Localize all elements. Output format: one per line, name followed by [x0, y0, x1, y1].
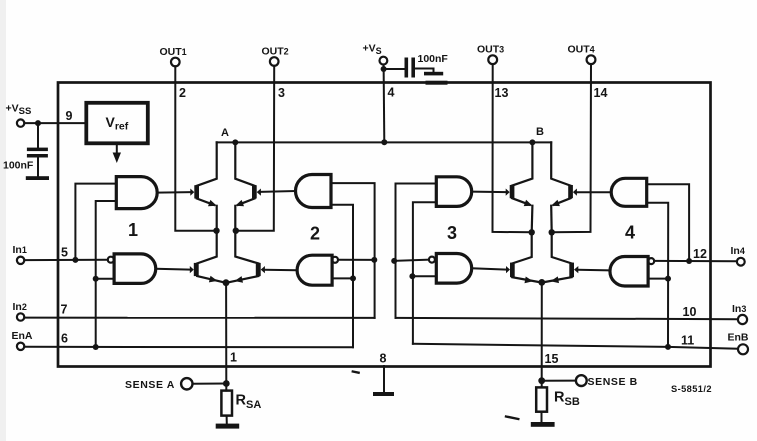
svg-text:EnB: EnB: [728, 332, 749, 344]
wire EnB bus3 up to gate3 lower inputs: [413, 202, 436, 343]
transistor Q3 emitter: [197, 276, 225, 283]
svg-text:EnA: EnA: [12, 330, 33, 342]
node OUT2 junction dot: [233, 228, 239, 234]
wire sense A line pin 1: [225, 283, 227, 384]
transistor Q8 base arrowhead: [574, 266, 578, 273]
wire OUT1 pin 2 vertical: [175, 66, 216, 230]
svg-text:2: 2: [310, 224, 320, 244]
transistor Q1 base bar: [194, 185, 199, 198]
transistor Q2 base bar: [252, 185, 257, 198]
wire OUT2 pin 3 vertical: [236, 66, 274, 231]
svg-text:3: 3: [447, 223, 457, 243]
transistor Q4 emitter: [227, 276, 258, 283]
node EnA junction dot gate1 branch: [93, 344, 99, 350]
svg-text:OUT3: OUT3: [477, 44, 504, 56]
wire gate3 upper output to Q5 base: [472, 191, 506, 194]
transistor Q4 base arrowhead: [261, 266, 265, 273]
node B junction dot: [529, 139, 535, 145]
gate 3 upper AND: [436, 177, 471, 207]
wire +VSS pin 9 to Vref: [24, 122, 86, 124]
Vref block U1: [86, 103, 148, 144]
node OUT3 junction dot: [529, 229, 535, 235]
pin OUT4 terminal circle: [587, 55, 596, 64]
svg-text:11: 11: [681, 334, 694, 348]
wire OUT3 pin 13 vertical: [493, 64, 532, 232]
transistor Q2 base arrowhead: [257, 189, 261, 196]
transistor Q1 base arrowhead: [190, 189, 194, 196]
pin SENSE A terminal circle: [181, 378, 192, 389]
node sense A junction dot: [223, 380, 230, 387]
ground bar under C1: [26, 176, 49, 180]
gate 4 lower AND: [610, 257, 648, 287]
node In1 junction dot: [72, 257, 78, 263]
scan artifact dash near RSB: [506, 417, 518, 420]
transistor Q5 base arrowhead: [506, 189, 510, 196]
svg-text:In3: In3: [732, 303, 746, 315]
node VS junction dot: [381, 66, 387, 72]
wire gate2 bubble to In2 bus: [338, 259, 375, 261]
gate 2 lower AND: [297, 255, 332, 285]
svg-text:15: 15: [545, 352, 559, 366]
capacitor C1 100nF plates: [27, 148, 48, 152]
wire In2 bus up to gate2 upper input: [331, 183, 375, 318]
node VSS junction dot: [35, 120, 41, 126]
wire EnB pin 11 horizontal: [413, 344, 738, 349]
svg-text:Vref: Vref: [106, 114, 129, 133]
node EnB bus3 dot at gate3 lower AND input: [409, 273, 415, 279]
node OUT4 junction dot: [549, 229, 555, 235]
wire Q6 emitter to OUT4 node: [550, 206, 553, 233]
IC outer box: [58, 83, 711, 367]
wire gate3 bubble to In3 bus: [394, 260, 429, 261]
transistor Q3 base arrowhead: [190, 266, 194, 273]
svg-text:100nF: 100nF: [3, 160, 34, 172]
transistor Q8 emitter: [543, 277, 571, 282]
svg-text:+VS: +VS: [363, 43, 382, 57]
wire OUT4 pin 14 vertical: [552, 64, 591, 232]
svg-text:13: 13: [495, 86, 509, 100]
capacitor C2 100nF plates: [405, 58, 409, 78]
svg-text:RSB: RSB: [554, 390, 580, 409]
svg-text:RSA: RSA: [236, 393, 262, 412]
node VS rail junction dot: [381, 139, 387, 145]
wire In2 pin 7 horizontal: [24, 317, 374, 319]
wire gate1 lower output to Q3 base: [156, 268, 190, 271]
gate 1 lower AND: [114, 254, 156, 284]
wire gate2 upper output to Q2 base: [261, 190, 296, 193]
gate 4 upper AND: [611, 178, 646, 206]
wire gate4 lower output to Q8 base: [578, 269, 610, 272]
gate 4 input bubble: [648, 258, 654, 264]
wire EnA bus2 stub to gate2 lower AND: [332, 277, 353, 279]
ground bar under RSA: [216, 424, 240, 429]
svg-text:5: 5: [61, 246, 68, 260]
transistor Q7 base bar: [510, 263, 515, 278]
node OUT1 junction dot: [213, 228, 219, 234]
svg-text:OUT2: OUT2: [262, 46, 289, 58]
svg-text:In2: In2: [13, 301, 27, 313]
resistor RSB: [541, 381, 543, 388]
transistor Q5 base bar: [510, 185, 515, 198]
wire In3 pin 10 horizontal: [396, 318, 738, 319]
svg-text:OUT4: OUT4: [568, 44, 595, 56]
node EnA bus2 dot at gate2 lower AND input: [350, 275, 356, 281]
wire In4 pin 12 to gate4 bubble: [654, 260, 737, 262]
svg-text:+VSS: +VSS: [6, 103, 32, 118]
wire Q2 emitter to OUT2 node: [234, 206, 236, 231]
gate 3 lower AND: [436, 254, 471, 284]
ground bar near C2: [424, 72, 443, 76]
svg-text:14: 14: [594, 86, 608, 100]
transistor Q6 emitter: [554, 198, 571, 205]
wire SENSE A to junction: [193, 383, 227, 385]
pin In2 terminal circle: [17, 313, 24, 320]
wire VS to capacitor: [384, 68, 405, 70]
node In4 junction dot: [686, 258, 692, 264]
transistor Q3 collector path: [197, 231, 217, 264]
pin EnB terminal circle: [738, 344, 748, 354]
pin EnA terminal circle: [17, 343, 24, 350]
capacitor C1 100nF lead: [37, 123, 39, 148]
transistor Q3 base bar: [194, 263, 199, 276]
svg-text:12: 12: [693, 247, 707, 261]
svg-text:10: 10: [683, 305, 697, 319]
wire EnA pin 6 horizontal: [24, 346, 353, 349]
resistor RSA: [225, 384, 227, 391]
transistor Q4 base bar: [256, 263, 261, 276]
wire In4 bus up to gate4 upper input: [647, 184, 689, 261]
transistor Q8 base bar: [569, 263, 574, 278]
wire Q5 emitter to OUT3 node: [531, 206, 534, 233]
transistor Q5 collector path: [512, 142, 532, 185]
svg-text:7: 7: [61, 303, 68, 317]
svg-text:S-5851/2: S-5851/2: [671, 384, 712, 394]
svg-text:OUT1: OUT1: [160, 46, 187, 58]
svg-text:A: A: [221, 127, 229, 139]
transistor Q1 collector path: [197, 142, 217, 185]
svg-text:6: 6: [61, 332, 68, 346]
transistor Q1 emitter: [197, 199, 214, 205]
wire In3 bus up to gate3 upper input: [396, 184, 437, 318]
pin In3 terminal circle: [738, 315, 747, 324]
svg-text:In4: In4: [731, 245, 745, 257]
wire pin 8 ground stub: [383, 366, 385, 393]
transistor Q7 emitter: [512, 277, 540, 282]
wire EnB bus4 stub to gate4 lower AND: [648, 278, 668, 280]
wire EnB bus3 stub to gate3 lower AND: [412, 275, 436, 277]
svg-text:B: B: [536, 126, 544, 138]
svg-text:4: 4: [625, 223, 635, 243]
svg-text:1: 1: [128, 220, 138, 240]
Vref output arrow: [116, 143, 118, 154]
ground bar pin 8: [373, 392, 394, 396]
transistor Q5 emitter: [512, 198, 530, 205]
pin OUT3 terminal circle: [488, 55, 497, 64]
transistor Q6 base bar: [568, 185, 573, 198]
wire gate2 lower output to Q4 base: [265, 269, 297, 271]
gate 1 upper AND: [116, 177, 157, 209]
wire EnB bus4 up to gate4 lower inputs: [647, 203, 669, 347]
transistor Q8 collector path: [552, 232, 572, 263]
svg-text:9: 9: [66, 109, 73, 123]
scanner edge shade: [0, 0, 6, 441]
pin In1 terminal circle: [17, 257, 24, 264]
svg-text:2: 2: [179, 86, 186, 100]
svg-text:1: 1: [230, 351, 237, 365]
pin In4 terminal circle: [737, 258, 745, 266]
pin +VS terminal circle: [380, 57, 388, 65]
gate 2 input bubble: [332, 257, 338, 263]
wire gate3 lower output to Q7 base: [472, 268, 506, 269]
transistor Q7 collector path: [512, 232, 531, 263]
wire EnA bus2 up to gate2 lower inputs: [331, 205, 353, 347]
wire EnA bus1 stub to gate1 lower AND: [96, 278, 114, 280]
wire +VS pin 4 vertical: [383, 65, 386, 143]
node In3 bus junction dot at gate3 bubble wire: [391, 258, 397, 264]
ground bar under RSB: [531, 422, 555, 427]
wire C1 to ground: [37, 158, 39, 177]
node A junction dot: [232, 139, 238, 145]
gate 3 input bubble: [429, 257, 435, 263]
svg-text:8: 8: [380, 352, 387, 366]
gate 2 upper AND: [296, 175, 331, 208]
svg-text:SENSE B: SENSE B: [588, 376, 638, 388]
svg-text:3: 3: [278, 86, 285, 100]
node sense B junction dot: [538, 377, 545, 384]
pin OUT2 terminal circle: [270, 57, 279, 66]
wire Q1 emitter to OUT1 node: [216, 206, 218, 231]
gate 1 input bubble: [108, 257, 114, 263]
node bridge B emitter common dot: [538, 279, 545, 286]
transistor Q7 base arrowhead: [506, 266, 510, 273]
wire gate1 upper output to Q1 base: [157, 191, 190, 194]
transistor Q2 emitter: [238, 199, 255, 205]
node EnB junction dot gate4 branch: [665, 344, 671, 350]
pin SENSE B terminal circle: [576, 375, 587, 386]
wire capacitor to ground: [415, 69, 434, 73]
wire EnA bus1 up to gate1 lower inputs: [96, 201, 117, 347]
wire gate4 upper output to Q6 base: [577, 191, 611, 193]
pin +VSS terminal circle: [17, 119, 24, 126]
transistor Q2 collector path: [235, 142, 254, 185]
transistor Q6 collector path: [551, 142, 570, 185]
pin OUT1 terminal circle: [171, 58, 180, 67]
node EnB bus4 dot at gate4 lower AND input: [665, 276, 671, 282]
wire SENSE B to junction: [542, 380, 576, 382]
wire supply rail node A to node B: [217, 141, 552, 143]
transistor Q4 collector path: [235, 231, 258, 264]
wire In1 bus up to gate1 upper input: [75, 184, 116, 260]
svg-text:In1: In1: [13, 244, 27, 256]
node bridge A emitter common dot: [223, 279, 230, 286]
wire In1 pin 5 to gate1 bubble: [24, 259, 107, 261]
node In2 bus junction dot at gate2 bubble wire: [371, 257, 377, 263]
wire sense B line pin 15: [541, 282, 543, 380]
scan artifact dash near pin 8: [353, 372, 359, 373]
svg-text:SENSE A: SENSE A: [125, 379, 175, 391]
svg-text:100nF: 100nF: [418, 53, 449, 65]
svg-text:4: 4: [388, 86, 395, 100]
node EnA bus1 dot at gate1 lower AND input: [93, 276, 99, 282]
transistor Q6 base arrowhead: [573, 189, 577, 196]
